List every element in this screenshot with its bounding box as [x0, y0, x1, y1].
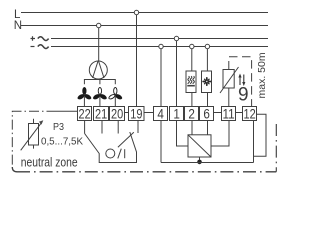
heater icon bar — [187, 85, 195, 87]
wire +~ bus — [51, 38, 268, 40]
svg-text:20: 20 — [111, 107, 124, 122]
wire 20 contact stub — [117, 121, 119, 134]
wire cooler to terminal 6 — [207, 93, 209, 107]
svg-text:12: 12 — [244, 107, 256, 122]
cooler snowflake icon — [203, 78, 210, 85]
label - — [31, 46, 35, 48]
sensor B1 resistor — [220, 67, 239, 93]
wire 1 to changeover box — [177, 121, 189, 147]
wire 19 to 4 — [144, 112, 154, 114]
svg-text:P3: P3 — [53, 121, 64, 133]
label ~ AC lower — [38, 45, 49, 49]
heater E1 box — [186, 71, 196, 93]
wire L bus — [21, 12, 268, 14]
svg-text:22: 22 — [79, 107, 91, 122]
terminal 20 — [110, 107, 125, 122]
wire 6 to changeover box — [207, 121, 209, 135]
svg-text:N: N — [14, 20, 22, 32]
wire -~ to cooler E2 — [206, 49, 208, 71]
switch S1 enclosure — [85, 132, 137, 163]
boundary right dash-dot — [275, 124, 277, 172]
switch lever — [118, 132, 134, 147]
svg-text:9: 9 — [238, 85, 249, 106]
sensor boundary dashed box — [229, 57, 252, 107]
terminal 21 — [94, 107, 109, 122]
wire 11 to changeover box — [211, 121, 229, 147]
wire -~ to heater E1 — [191, 49, 193, 71]
svg-text:2: 2 — [188, 107, 195, 122]
wire fan2 to terminal 21 — [99, 96, 101, 107]
switch label / — [118, 149, 122, 159]
svg-text:21: 21 — [95, 107, 107, 122]
terminal 4 — [154, 107, 168, 122]
neutral zone boundary — [12, 111, 56, 168]
wire 12 return path — [254, 114, 267, 162]
label neutral zone — [21, 155, 78, 169]
terminal 2 — [185, 107, 199, 122]
svg-text:neutral zone: neutral zone — [21, 155, 78, 169]
switch label O — [106, 149, 115, 158]
label + — [31, 36, 36, 41]
cooler E2 box — [202, 71, 212, 93]
junction dot — [197, 160, 202, 165]
svg-text:4: 4 — [157, 107, 164, 122]
wire 4 to bottom rail — [160, 121, 162, 163]
wire N bus — [21, 25, 268, 27]
wire L to terminal 19 — [136, 15, 138, 107]
wire 19 to switch — [137, 121, 139, 134]
label max. 50m — [256, 52, 268, 98]
label L — [14, 9, 21, 21]
terminal 22 — [78, 107, 92, 122]
svg-text:1: 1 — [173, 107, 180, 122]
node on -~ line at cooler — [205, 44, 209, 48]
wire fan1 to terminal 22 — [83, 96, 85, 107]
wire -~ to terminal 4 — [160, 49, 162, 107]
terminal 6 — [200, 107, 214, 122]
wire heater to terminal 2 — [191, 93, 193, 107]
node on N line — [97, 23, 101, 27]
terminal 19 — [129, 107, 145, 122]
changeover box Y1 — [188, 135, 211, 157]
label P3 — [53, 121, 64, 133]
svg-text:L: L — [14, 9, 21, 21]
wire 6 to 11 — [214, 112, 222, 114]
terminal 11 — [222, 107, 236, 122]
node on -~ line at heater — [190, 44, 194, 48]
wire +~ to terminal 1 — [176, 41, 178, 107]
svg-text:19: 19 — [130, 107, 142, 122]
wire 21 contact stub — [101, 121, 103, 134]
node on L line — [134, 10, 138, 14]
svg-text:11: 11 — [223, 107, 235, 122]
wire 2 to changeover box — [191, 121, 193, 135]
wire -~ bus — [51, 46, 268, 48]
label 0,5...7,5K — [41, 136, 83, 148]
potentiometer P3 — [21, 119, 44, 151]
terminal 1 — [170, 107, 184, 122]
wire sensor to terminal 11 — [228, 88, 230, 107]
heater icon waves — [188, 76, 195, 84]
wire 11 to 12 — [236, 112, 243, 114]
label ~ AC upper — [38, 37, 49, 41]
sensor arrows up-down — [238, 74, 245, 87]
wire 22 to switch — [84, 121, 86, 134]
wire bottom rail — [161, 162, 254, 164]
svg-text:0,5...7,5K: 0,5...7,5K — [41, 136, 83, 148]
label N — [14, 20, 22, 32]
node on +~ line — [174, 36, 178, 40]
boundary bottom dash-dot — [12, 167, 17, 172]
motor M1 fan drive — [89, 61, 107, 79]
fan speed symbol high (3 dark blades) — [77, 88, 91, 100]
fan speed symbol mid (1 white blade) — [93, 88, 107, 100]
terminal 12 — [243, 107, 257, 122]
wire speed distribution bar — [84, 80, 115, 85]
svg-text:6: 6 — [203, 107, 210, 122]
wire N to motor — [98, 28, 100, 62]
svg-text:max. 50m: max. 50m — [256, 52, 268, 98]
sensor theta label — [238, 85, 249, 106]
wire changeover to bottom rail — [199, 157, 201, 162]
fan speed symbol low (2 white blades) — [108, 88, 122, 100]
wire fan3 to terminal 20 — [114, 96, 116, 107]
switch label I — [124, 149, 126, 158]
wire neutral zone to terminal 22 — [57, 110, 78, 112]
node on -~ line — [159, 44, 163, 48]
wire 20 to 19 — [125, 112, 129, 114]
